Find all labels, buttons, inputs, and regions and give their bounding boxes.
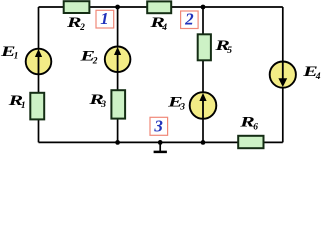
svg-text:1: 1 — [21, 101, 26, 111]
svg-text:4: 4 — [315, 72, 321, 82]
svg-text:1: 1 — [14, 52, 19, 62]
svg-text:3: 3 — [153, 117, 163, 136]
svg-text:1: 1 — [100, 9, 109, 28]
svg-text:6: 6 — [253, 123, 258, 133]
svg-text:3: 3 — [100, 100, 106, 110]
svg-text:2: 2 — [184, 10, 194, 29]
svg-text:3: 3 — [179, 103, 185, 113]
svg-text:2: 2 — [92, 56, 98, 66]
svg-text:4: 4 — [161, 23, 167, 33]
svg-text:5: 5 — [227, 46, 232, 56]
svg-text:2: 2 — [79, 23, 85, 33]
